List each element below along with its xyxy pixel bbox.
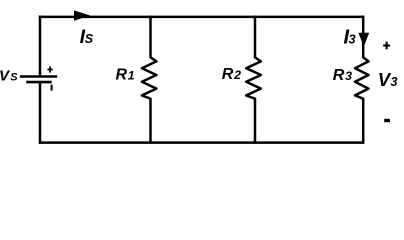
wire top horizontal [39,16,365,19]
minus polarity mark of V3 [384,119,390,122]
label VS [0,68,18,85]
current arrow I3 pointing down [358,33,369,47]
svg-text:3: 3 [391,75,398,89]
wire left vertical lower (source bottom lead) [39,82,42,144]
label R1 [116,67,135,84]
wire left vertical upper (source top lead) [39,16,42,76]
svg-text:R: R [116,67,128,84]
svg-text:3: 3 [345,69,352,83]
svg-text:R: R [222,66,234,83]
svg-text:R: R [333,67,345,84]
wire bottom horizontal [39,141,364,144]
svg-text:2: 2 [233,68,241,82]
resistor R3 branch with zigzag (right side) [355,16,369,144]
plus polarity mark of V3 [383,42,390,50]
resistor R2 branch with zigzag [246,16,261,144]
svg-text:S: S [10,72,18,84]
svg-text:1: 1 [128,69,135,83]
current arrow IS on top wire [74,10,90,20]
voltage source VS battery plates [20,76,57,90]
label R3 [333,67,352,84]
plus sign of source [47,66,52,72]
label I3 [344,26,356,48]
svg-text:3: 3 [349,32,356,46]
svg-text:S: S [85,32,94,46]
label V3 [378,69,398,90]
resistor R1 branch with zigzag [142,16,157,144]
label IS [80,26,94,48]
label R2 [222,66,241,83]
